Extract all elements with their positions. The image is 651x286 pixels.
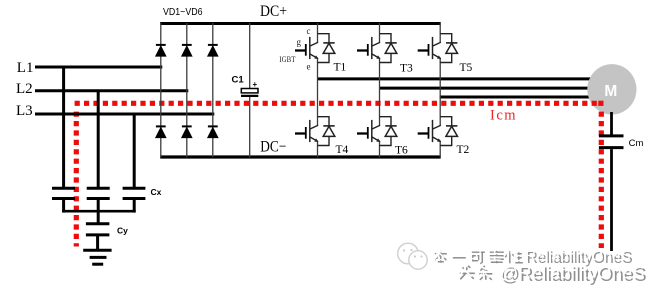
capacitor Cm xyxy=(599,136,624,148)
diode VD6 xyxy=(208,126,218,137)
wire inverter leg 1 xyxy=(317,23,319,157)
diode VD5 xyxy=(182,126,192,137)
motor M xyxy=(587,64,636,114)
diode VD1 xyxy=(156,45,166,56)
wire Icm path horizontal (red dotted) xyxy=(75,101,598,106)
diode VD3 xyxy=(208,45,218,56)
svg-text:L2: L2 xyxy=(16,81,33,97)
wire drop from L3 to Cx3 xyxy=(133,113,136,190)
wire drop from L2 to Cx2 xyxy=(97,90,100,190)
wire Cm to ground run xyxy=(610,149,613,251)
wire rectifier column 1 xyxy=(160,23,162,157)
wire Cx3 to bus xyxy=(133,199,136,213)
svg-text:+: + xyxy=(253,80,258,89)
transistor T2 xyxy=(418,117,458,146)
svg-text:M: M xyxy=(604,83,617,100)
wire Icm path left vertical (red dotted) xyxy=(74,112,79,247)
svg-text:T6: T6 xyxy=(395,145,408,157)
transistor T6 xyxy=(357,117,397,146)
watermark xyxy=(398,243,647,285)
svg-text:g: g xyxy=(297,37,302,47)
svg-text:e: e xyxy=(307,62,311,72)
capacitor Cx2 xyxy=(87,188,110,198)
wire motor phase U xyxy=(318,77,593,80)
svg-text:c: c xyxy=(307,26,311,36)
capacitor Cx1 xyxy=(52,188,75,198)
diode VD2 xyxy=(182,45,192,56)
capacitor Cy xyxy=(86,224,110,235)
wire drop from L1 to Cx1 xyxy=(62,66,65,190)
svg-text:VD1~VD6: VD1~VD6 xyxy=(163,6,203,18)
transistor T4 xyxy=(295,117,335,146)
node DC- rail xyxy=(160,155,441,158)
watermark logo xyxy=(398,243,427,269)
svg-text:DC+: DC+ xyxy=(260,3,287,20)
wire inverter leg 3 xyxy=(439,23,441,157)
wire inverter leg 2 xyxy=(379,23,381,157)
svg-text:DC−: DC− xyxy=(260,139,286,156)
node DC+ rail xyxy=(160,22,441,25)
wire L2 xyxy=(35,89,188,92)
wire motor phase V xyxy=(380,87,593,90)
capacitor Cx3 xyxy=(123,188,146,198)
wire L1 xyxy=(35,66,162,69)
svg-text:Cy: Cy xyxy=(117,226,128,236)
wire Cy to ground xyxy=(96,235,99,250)
svg-text:T3: T3 xyxy=(400,63,413,75)
wire star bus xyxy=(62,210,136,213)
svg-text:Icm: Icm xyxy=(490,108,517,124)
wire motor phase W xyxy=(440,96,592,99)
transistor T3 xyxy=(357,34,397,63)
wire Icm path right vertical (red dotted) xyxy=(599,112,604,248)
wire L3 xyxy=(35,113,214,116)
wire rectifier column 3 xyxy=(212,23,214,157)
svg-text:Cm: Cm xyxy=(629,138,644,149)
diode VD4 xyxy=(156,126,166,137)
wire C1 stem upper xyxy=(249,23,251,88)
svg-text:Cx: Cx xyxy=(151,187,162,197)
svg-text:T2: T2 xyxy=(457,144,470,156)
wire motor to Cm xyxy=(610,112,613,135)
transistor T5 xyxy=(418,34,458,63)
wire Cx1 to bus xyxy=(62,199,65,213)
svg-text:L1: L1 xyxy=(17,60,34,76)
wire Cx2 to bus xyxy=(97,199,100,224)
wire rectifier column 2 xyxy=(186,23,188,157)
transistor T1 xyxy=(295,34,335,63)
svg-text:T1: T1 xyxy=(334,62,347,74)
wire C1 stem lower xyxy=(249,97,251,158)
watermark highlight layer xyxy=(433,248,645,283)
capacitor C1 xyxy=(241,89,258,96)
svg-text:T5: T5 xyxy=(460,62,473,74)
svg-text:IGBT: IGBT xyxy=(279,54,296,64)
svg-text:T4: T4 xyxy=(336,144,349,156)
watermark shadow layer xyxy=(435,250,647,285)
ground xyxy=(83,250,111,264)
svg-text:L3: L3 xyxy=(16,103,33,119)
svg-text:C1: C1 xyxy=(232,75,245,86)
